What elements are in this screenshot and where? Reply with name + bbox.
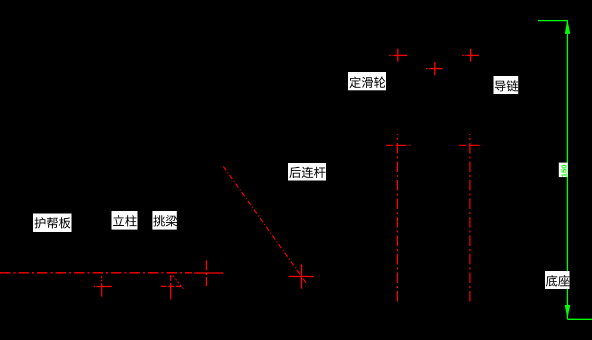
pulley cross C (top right) bbox=[462, 49, 479, 62]
centerline: left chain vertical dash-dot bbox=[396, 134, 398, 302]
pulley cross A (top left) bbox=[389, 49, 407, 62]
position cross 2 (under 挑梁 area) bbox=[161, 275, 183, 299]
label box 定滑轮 bbox=[348, 72, 386, 90]
position cross 1 (under 护帮板/立柱 area) bbox=[94, 276, 112, 296]
dimension arrow down bbox=[566, 306, 570, 315]
position cross 4 (end of rear link) bbox=[289, 264, 314, 288]
cross arm on right chain line bbox=[459, 144, 482, 146]
label box 立柱 bbox=[112, 211, 138, 230]
label box 挑梁 bbox=[152, 211, 177, 230]
centerline: right chain vertical dash-dot bbox=[469, 134, 471, 302]
position cross 3 (on base line, right end) bbox=[194, 260, 223, 286]
label box 底座 bbox=[545, 271, 570, 289]
centerline: rear link diagonal dash-dot bbox=[223, 166, 306, 283]
label box 导链 bbox=[494, 76, 519, 94]
label box 后连杆 bbox=[288, 163, 326, 181]
dimension: top extension line bbox=[538, 20, 568, 22]
dimension: bottom extension line bbox=[567, 318, 592, 320]
svg-text:150: 150 bbox=[560, 165, 569, 178]
dimension text (rotated) bbox=[559, 163, 569, 178]
dimension arrow up bbox=[566, 23, 570, 33]
pulley cross B (center lower) bbox=[426, 62, 443, 75]
label box 护帮板 bbox=[33, 214, 72, 233]
centerline: floor/base horizontal dash-dot line bbox=[0, 272, 192, 274]
cross arm on left chain line bbox=[386, 144, 411, 146]
dimension: vertical dimension line bbox=[566, 21, 568, 320]
